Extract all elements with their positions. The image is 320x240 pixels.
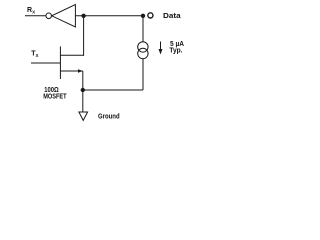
wire bottom rail	[83, 89, 143, 91]
MOSFET source arrow	[78, 69, 83, 73]
wire drain vertical	[83, 16, 85, 56]
wire current source top	[142, 16, 144, 42]
inverter U1 bubble	[46, 13, 52, 19]
MOSFET Q1 channel bar	[59, 46, 61, 79]
current direction arrow	[160, 42, 162, 50]
svg-text:Ground: Ground	[98, 114, 120, 121]
wire Rx input	[25, 15, 46, 17]
wire top rail	[75, 15, 143, 17]
Data terminal circle	[148, 13, 153, 18]
inverter U1	[52, 5, 76, 27]
svg-text:MOSFET: MOSFET	[43, 94, 67, 101]
ground symbol	[79, 112, 88, 120]
wire source vertical	[82, 71, 84, 90]
current source I1 circle upper	[138, 42, 148, 52]
svg-text:Data: Data	[163, 13, 181, 20]
wire current source bottom	[142, 59, 144, 91]
junction dot ground node	[81, 88, 85, 92]
wire Tx gate	[31, 62, 60, 64]
current source I1 circle lower	[138, 48, 148, 58]
junction dot Data node	[141, 14, 145, 18]
svg-text:Typ.: Typ.	[169, 48, 182, 55]
wire ground stem	[82, 90, 84, 112]
wire source tap	[60, 70, 82, 72]
wire drain tap	[60, 54, 83, 56]
junction dot drain node	[81, 14, 85, 18]
